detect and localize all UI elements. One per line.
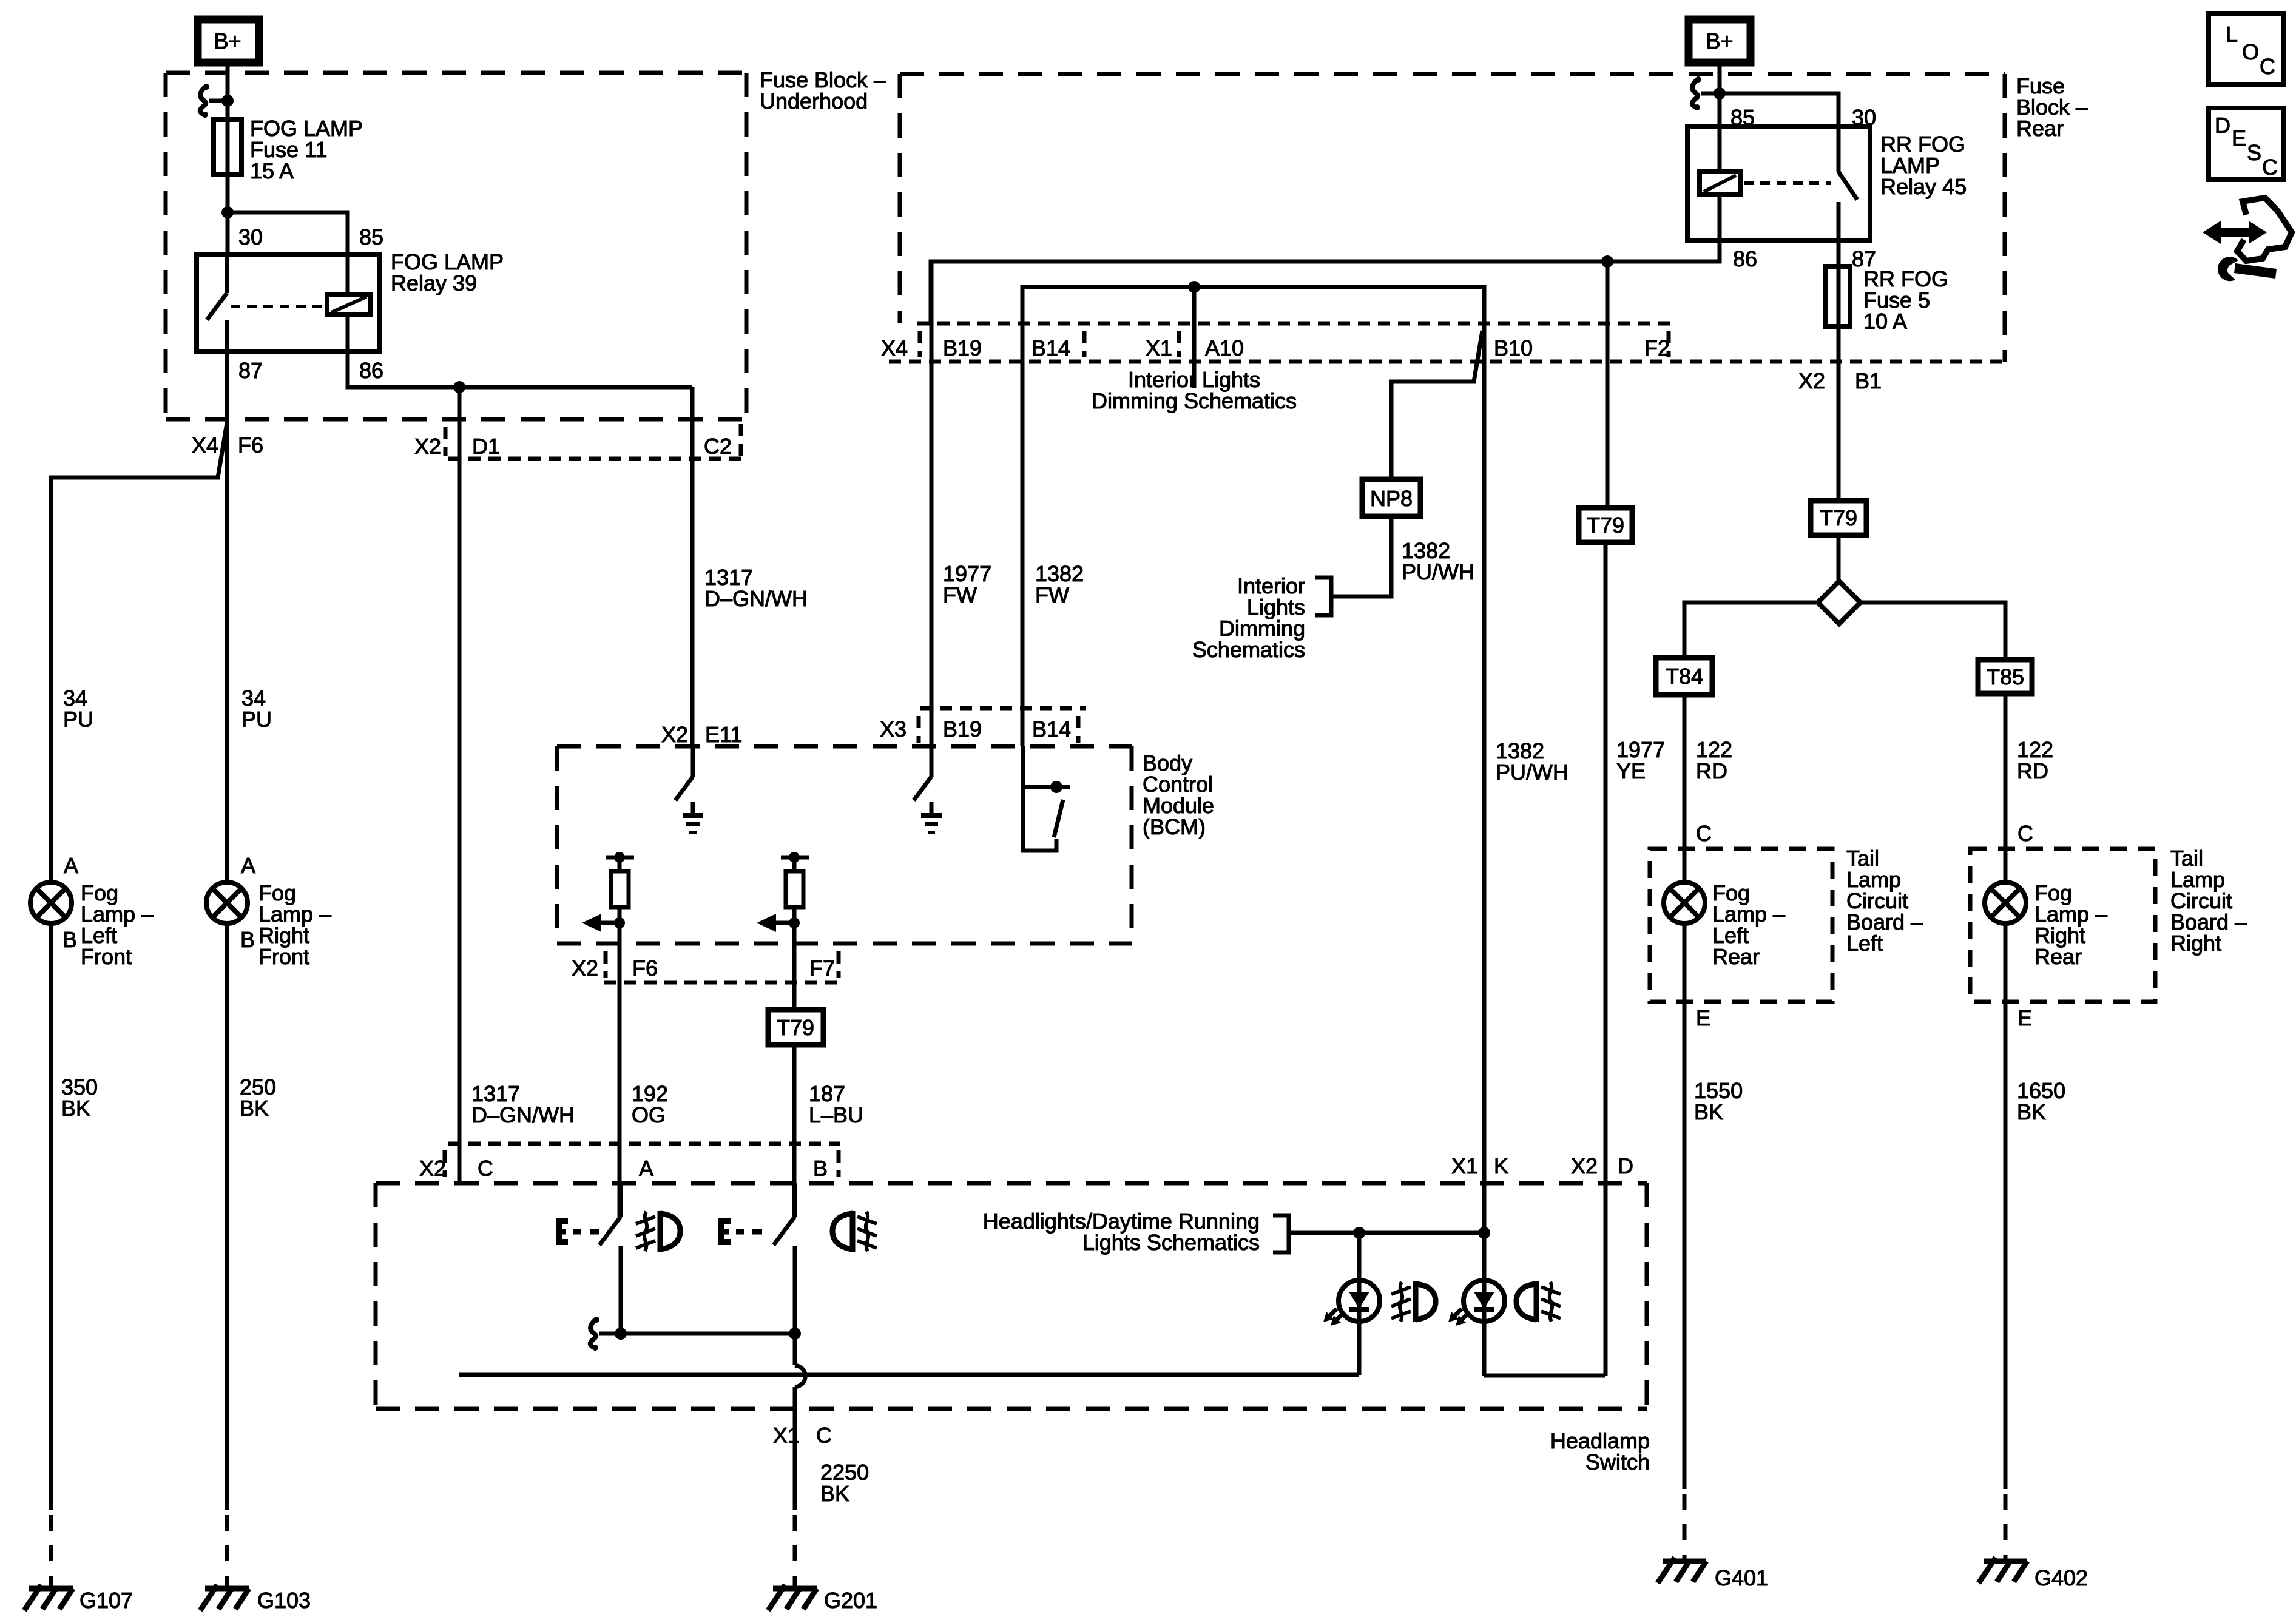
svg-text:Dimming Schematics: Dimming Schematics <box>1092 388 1297 413</box>
svg-text:F6: F6 <box>238 433 263 457</box>
svg-text:T79: T79 <box>777 1015 814 1040</box>
fog switch A in headlamp switch <box>556 1183 680 1334</box>
wire B19 into BCM <box>930 262 934 777</box>
label 1382 FW <box>1035 561 1084 607</box>
power B+ (left) <box>198 19 259 62</box>
connector labels X1 K <box>1451 1153 1508 1178</box>
svg-text:10 A: 10 A <box>1863 309 1907 334</box>
tail lamp circuit board left box <box>1650 846 1923 1002</box>
LED indicator rear fog <box>1448 1233 1561 1376</box>
svg-text:BK: BK <box>61 1096 90 1121</box>
svg-text:E: E <box>2232 126 2246 150</box>
svg-text:L: L <box>2226 22 2238 47</box>
svg-text:X3: X3 <box>880 717 907 741</box>
wire to G201 <box>793 1515 797 1586</box>
svg-text:87: 87 <box>238 358 263 383</box>
svg-text:X2: X2 <box>414 434 441 459</box>
wire diamond to T84 <box>1684 603 1818 658</box>
svg-text:B+: B+ <box>1706 29 1733 53</box>
svg-text:X1: X1 <box>773 1423 800 1448</box>
svg-text:K: K <box>1494 1153 1508 1178</box>
svg-text:X1: X1 <box>1146 336 1172 360</box>
label 1317 D-GN/WH upper <box>704 565 808 611</box>
svg-text:T79: T79 <box>1587 513 1624 538</box>
svg-text:OG: OG <box>632 1102 666 1127</box>
svg-text:Front: Front <box>258 944 309 969</box>
headlights/DRL schematics note and bracket <box>983 1209 1289 1255</box>
svg-text:YE: YE <box>1616 758 1646 783</box>
wire joining switch outputs <box>590 1317 801 1351</box>
label 1550 BK <box>1694 1078 1743 1124</box>
svg-text:PU: PU <box>241 707 272 732</box>
svg-text:A: A <box>639 1156 653 1181</box>
label 2250 BK <box>820 1460 869 1506</box>
ground G201 <box>768 1585 877 1613</box>
BCM F7 output driver <box>757 852 809 944</box>
connector row X4 B19 B14 X1 A10 B10 F2 <box>881 323 2005 362</box>
label 1317 D-GN/WH lower <box>471 1081 575 1127</box>
label FOG LAMP Relay 39 <box>391 249 504 295</box>
svg-text:Relay 45: Relay 45 <box>1880 174 1967 199</box>
svg-text:X1: X1 <box>1451 1153 1478 1178</box>
wire T84 to left rear lamp <box>1683 695 1687 882</box>
connector labels X1 C bottom <box>773 1423 832 1448</box>
svg-text:B: B <box>62 927 77 952</box>
connector row X3 B19 B14 <box>880 708 1086 743</box>
svg-text:E11: E11 <box>705 722 742 747</box>
relay R39 FOG LAMP Relay 39 <box>197 254 380 351</box>
svg-text:X2: X2 <box>572 956 598 981</box>
wire B+ right down <box>1718 59 1722 127</box>
svg-text:X2: X2 <box>1798 368 1825 393</box>
connector labels X2 D <box>1571 1153 1633 1178</box>
adjust arrow wrench icon <box>2203 198 2292 281</box>
svg-text:D–GN/WH: D–GN/WH <box>471 1102 575 1127</box>
label 1382 PU/WH at NP8 <box>1402 538 1474 584</box>
clip symbol at B+ left feed <box>200 84 234 118</box>
connector labels X2 E11 <box>661 722 742 747</box>
wire B output to X1 C with hop over indicator wire <box>795 1334 805 1510</box>
svg-text:PU/WH: PU/WH <box>1496 760 1568 785</box>
svg-text:F2: F2 <box>1644 336 1670 360</box>
DESC legend icon <box>2209 108 2284 180</box>
svg-text:B: B <box>813 1156 828 1181</box>
svg-text:E: E <box>2017 1005 2032 1030</box>
splice T84 <box>1656 658 1712 695</box>
svg-text:Rear: Rear <box>2016 116 2064 141</box>
svg-text:F7: F7 <box>809 956 835 981</box>
node A10 stub <box>1192 287 1197 388</box>
splice T79 on B1 <box>1811 501 1866 535</box>
wire relay45-86 to BCM B19 <box>931 240 1720 323</box>
svg-text:PU: PU <box>63 707 93 732</box>
svg-text:T79: T79 <box>1820 505 1857 530</box>
LOC legend icon <box>2209 13 2284 84</box>
svg-text:X4: X4 <box>192 433 218 457</box>
svg-text:C: C <box>2262 155 2278 180</box>
LED indicator front fog <box>1323 1233 1436 1375</box>
svg-text:S: S <box>2247 140 2261 165</box>
svg-text:PU/WH: PU/WH <box>1402 559 1474 584</box>
wire B+ to fuse 11 <box>226 59 230 212</box>
svg-text:BK: BK <box>820 1481 849 1506</box>
label fuse block rear <box>2016 73 2088 141</box>
wire B14 to B10 crossover <box>1022 281 1484 1233</box>
svg-text:G201: G201 <box>824 1588 877 1613</box>
BCM F6 output driver <box>582 852 634 944</box>
svg-text:Schematics: Schematics <box>1192 637 1305 662</box>
label RR FOG LAMP Relay 45 <box>1880 132 1967 199</box>
label 34 PU left <box>63 686 93 732</box>
svg-text:30: 30 <box>238 224 263 249</box>
svg-text:C: C <box>816 1423 832 1448</box>
label 1977 FW <box>943 561 991 607</box>
splice T79 on 1977 YE <box>1579 508 1632 542</box>
svg-text:A: A <box>241 853 255 878</box>
power B+ (right) <box>1689 19 1751 62</box>
svg-text:B19: B19 <box>943 717 982 741</box>
connector row X2 F6 F7 below BCM <box>572 951 840 982</box>
svg-text:Underhood: Underhood <box>760 89 868 113</box>
fog lamp left front <box>30 853 154 969</box>
svg-text:L–BU: L–BU <box>809 1102 863 1127</box>
ground G401 <box>1658 1558 1768 1590</box>
label 34 PU right <box>241 686 272 732</box>
svg-text:FW: FW <box>1035 582 1069 607</box>
label interior lights dimming schematics top <box>1092 367 1297 413</box>
label 1977 YE <box>1616 737 1665 783</box>
label 1650 BK <box>2017 1078 2065 1124</box>
interior lights dimming bracket and text <box>1192 573 1331 662</box>
svg-text:G402: G402 <box>2034 1565 2088 1590</box>
fuse block underhood box <box>166 73 746 419</box>
svg-text:NP8: NP8 <box>1370 486 1413 511</box>
wire branch to relay 45 pin 30 <box>1720 93 1838 127</box>
svg-text:Relay 39: Relay 39 <box>391 271 477 295</box>
label 192 OG <box>632 1081 668 1127</box>
BCM box Body Control Module <box>557 746 1214 944</box>
wire left front lamp to G107 <box>49 923 53 1586</box>
svg-text:BK: BK <box>240 1096 269 1121</box>
svg-text:86: 86 <box>1733 246 1757 271</box>
fog lamp right front <box>206 853 331 969</box>
splice NP8 <box>1362 479 1420 516</box>
svg-text:BK: BK <box>2017 1099 2046 1124</box>
fuse F11 FOG LAMP Fuse 11 15A <box>214 116 363 183</box>
wire D1 to headlamp switch C (1317 D-GN/WH) <box>458 387 462 1183</box>
svg-text:BK: BK <box>1694 1099 1723 1124</box>
wire left rear lamp to G401 <box>1683 923 1687 1559</box>
label 1382 PU/WH at K wire <box>1496 738 1568 785</box>
wire B1 to T79 <box>1837 362 1841 501</box>
svg-text:Rear: Rear <box>1712 944 1760 969</box>
wire C2 to BCM E11 (1317 D-GN/WH) <box>690 387 695 746</box>
svg-text:(BCM): (BCM) <box>1143 814 1206 839</box>
svg-text:G107: G107 <box>79 1588 133 1613</box>
BCM B19 input switch to ground <box>914 777 942 832</box>
fog lamp left rear <box>1664 880 1785 969</box>
svg-text:Right: Right <box>2170 931 2221 956</box>
clip symbol at B+ right feed <box>1692 76 1726 110</box>
svg-text:X4: X4 <box>881 336 908 360</box>
svg-text:D1: D1 <box>472 434 500 459</box>
wire fuse to relay 39 pins 30/85 <box>221 206 348 254</box>
wire diamond to T85 <box>1860 603 2005 660</box>
wire F7 to T79 (187 L-BU) <box>792 944 797 1010</box>
wire T79 to diamond splice <box>1837 535 1841 581</box>
wire F2 to T79 <box>1606 262 1610 508</box>
svg-text:Switch: Switch <box>1585 1450 1650 1474</box>
headlamp switch connector row X2 C A B <box>419 1144 840 1181</box>
fuse F5 RR FOG Fuse 5 10A <box>1826 240 1948 362</box>
svg-text:B10: B10 <box>1494 336 1533 360</box>
svg-text:D–GN/WH: D–GN/WH <box>704 586 808 611</box>
svg-text:D: D <box>2215 113 2230 138</box>
svg-text:85: 85 <box>359 224 383 249</box>
svg-text:E: E <box>1696 1005 1710 1030</box>
tail lamp circuit board right box <box>1970 846 2247 1002</box>
fuse block rear box <box>900 74 2005 362</box>
wire right front lamp to G103 <box>225 923 229 1586</box>
svg-text:C: C <box>1696 821 1712 846</box>
svg-text:FW: FW <box>943 582 977 607</box>
connector labels X2 B1 <box>1798 368 1882 393</box>
svg-text:B14: B14 <box>1032 717 1071 741</box>
svg-text:15 A: 15 A <box>250 158 294 183</box>
svg-text:B: B <box>240 927 255 952</box>
svg-text:B19: B19 <box>943 336 982 360</box>
svg-text:C: C <box>2260 54 2275 79</box>
svg-text:T85: T85 <box>1987 664 2024 689</box>
svg-text:C: C <box>478 1156 493 1181</box>
label 350 BK <box>61 1075 98 1121</box>
wire NP8 to interior lights bracket <box>1331 516 1391 596</box>
wire LED2 to pin D <box>1484 1374 1605 1378</box>
relay R45 RR FOG LAMP Relay 45 <box>1687 127 1870 240</box>
splice T79 on 187 <box>768 1010 823 1045</box>
wire relay39-86 to C2/D1 <box>348 351 692 393</box>
label 122 RD left <box>1696 737 1732 783</box>
svg-text:A: A <box>64 853 78 878</box>
svg-text:C: C <box>2017 821 2033 846</box>
svg-text:86: 86 <box>359 358 383 383</box>
label 122 RD right <box>2017 737 2053 783</box>
svg-text:X2: X2 <box>1571 1153 1598 1178</box>
NP8 branch diagonal and wire <box>1391 331 1482 479</box>
svg-text:B14: B14 <box>1032 336 1070 360</box>
svg-text:Left: Left <box>1846 931 1883 956</box>
splice T85 <box>1978 660 2032 694</box>
wire T79 to headlamp switch D <box>1604 542 1608 1376</box>
fog switch B in headlamp switch <box>718 1183 877 1334</box>
label 250 BK <box>240 1075 276 1121</box>
svg-text:X2: X2 <box>661 722 688 747</box>
svg-text:G103: G103 <box>257 1588 311 1613</box>
wire F6 to headlamp switch A (192 OG) <box>618 944 622 1217</box>
svg-text:O: O <box>2242 39 2259 64</box>
svg-text:A10: A10 <box>1205 336 1244 360</box>
ground G402 <box>1979 1558 2088 1590</box>
wire T85 to right rear lamp <box>2004 694 2008 882</box>
svg-text:RD: RD <box>2017 758 2048 783</box>
headlamp switch box <box>376 1183 1650 1474</box>
svg-text:X2: X2 <box>419 1156 446 1181</box>
BCM E11 input switch to ground <box>675 746 703 832</box>
svg-text:C2: C2 <box>704 434 732 459</box>
svg-text:B+: B+ <box>214 29 241 53</box>
indicator feed wire from C to LED1 <box>459 1373 1359 1377</box>
BCM B14 input switch <box>1023 746 1070 851</box>
diamond splice <box>1818 581 1860 624</box>
svg-text:T84: T84 <box>1666 664 1703 689</box>
svg-text:D: D <box>1618 1153 1633 1178</box>
svg-text:B1: B1 <box>1855 368 1882 393</box>
fog lamp right rear <box>1985 880 2107 969</box>
svg-text:Front: Front <box>81 944 132 969</box>
label fuse block underhood <box>760 67 886 113</box>
svg-text:Lights Schematics: Lights Schematics <box>1082 1230 1260 1255</box>
wire bracket to K with LED branches <box>1289 1227 1490 1239</box>
wire relay39-87 down through X4-F6 <box>51 351 227 882</box>
ground G107 <box>24 1585 133 1613</box>
ground G103 <box>200 1585 311 1613</box>
wire T79 to headlamp switch B <box>792 1045 797 1217</box>
svg-text:RD: RD <box>1696 758 1727 783</box>
svg-text:F6: F6 <box>632 956 658 981</box>
svg-text:Rear: Rear <box>2034 944 2082 969</box>
connector row X4/F6 X2/D1 C2 <box>192 424 741 459</box>
wire right rear lamp to G402 <box>2004 923 2008 1559</box>
svg-text:G401: G401 <box>1715 1565 1768 1590</box>
label 187 L-BU <box>809 1081 863 1127</box>
